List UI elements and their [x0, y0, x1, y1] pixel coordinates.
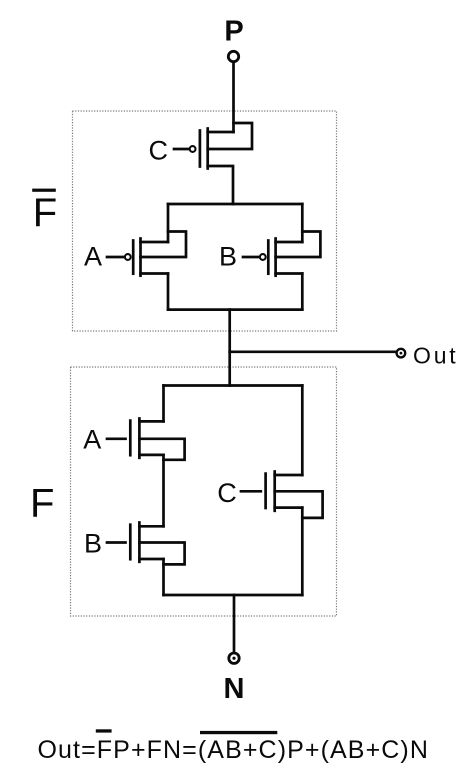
svg-text:A: A: [84, 242, 102, 272]
svg-text:Out: Out: [413, 342, 458, 368]
svg-text:N: N: [224, 673, 245, 705]
svg-text:C: C: [217, 478, 237, 508]
svg-text:C: C: [149, 136, 169, 166]
svg-text:F: F: [30, 481, 54, 525]
svg-text:F: F: [33, 191, 57, 235]
svg-text:A: A: [83, 424, 101, 454]
svg-text:Out=FP+FN=(AB+C)P+(AB+C)N: Out=FP+FN=(AB+C)P+(AB+C)N: [38, 736, 430, 764]
svg-text:B: B: [219, 242, 237, 272]
svg-text:P: P: [224, 16, 243, 48]
svg-text:B: B: [84, 528, 102, 558]
